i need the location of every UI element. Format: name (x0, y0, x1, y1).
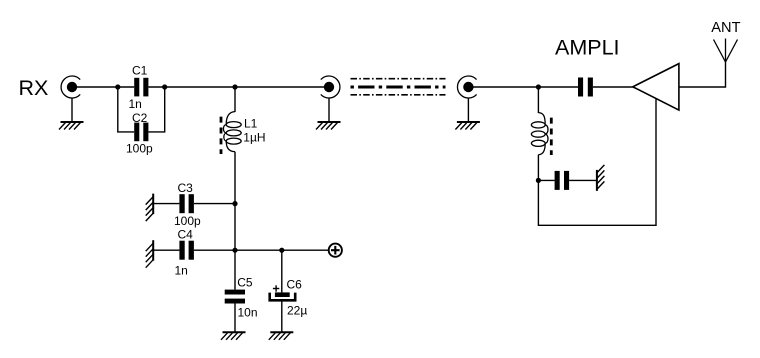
wire J3 to coupling cap (472, 86, 578, 88)
ground at C3 (146, 194, 154, 222)
svg-text:10n: 10n (238, 305, 258, 319)
wire L2 to node H (537, 155, 539, 181)
ground under C6 (269, 332, 294, 340)
inductor L1 (221, 112, 266, 154)
wire node F down to C6 (281, 250, 283, 292)
wire J1 stem (71, 98, 73, 122)
svg-text:1µH: 1µH (243, 130, 265, 144)
wire J1 to C1 (76, 86, 134, 88)
wire gnd to C4 (153, 249, 179, 251)
svg-text:22µ: 22µ (287, 303, 307, 317)
svg-text:RX: RX (19, 76, 49, 100)
svg-text:ANT: ANT (711, 20, 740, 36)
wire node C down to L1 (234, 87, 236, 112)
node B (right of C1) (162, 84, 167, 89)
wire C3 to node D (194, 203, 235, 205)
wire amp output to antenna (679, 62, 726, 87)
connector J1 (RX input) (61, 76, 80, 98)
svg-text:100p: 100p (126, 142, 153, 156)
wire bypass cap to ground (569, 179, 597, 181)
wire L1 to C5 (234, 152, 236, 290)
ground under J2 (316, 122, 341, 130)
node A (left of C1) (115, 84, 120, 89)
capacitor coupling (amp input) (578, 78, 593, 97)
wire J2 stem (328, 98, 330, 122)
capacitor C6 electrolytic (270, 277, 308, 317)
svg-text:C5: C5 (237, 275, 253, 289)
ground at C4 (146, 240, 154, 268)
wire node G down to L2 (537, 87, 539, 113)
node E (232, 248, 237, 253)
wire C5 to ground (234, 304, 236, 333)
wire feedback loop (538, 98, 656, 225)
ground under C5 (221, 332, 246, 340)
connector J3 (457, 76, 476, 98)
capacitor C1 (129, 64, 149, 111)
coax cable bottom braid (351, 94, 446, 96)
svg-text:C3: C3 (178, 181, 194, 195)
op-amp U1 triangle (633, 64, 679, 111)
node C (top of L1) (232, 84, 237, 89)
svg-text:1n: 1n (129, 97, 142, 111)
antenna (714, 39, 738, 63)
svg-text:1n: 1n (175, 264, 188, 278)
coax cable top braid (351, 78, 446, 80)
ground at bypass cap (596, 165, 604, 191)
svg-text:C4: C4 (178, 228, 194, 242)
inductor L2 (531, 113, 551, 155)
wire cap to amp (593, 86, 633, 88)
capacitor C5 (225, 275, 258, 319)
svg-text:C1: C1 (132, 64, 148, 78)
node H (536, 178, 541, 183)
wire J3 stem (467, 98, 469, 122)
capacitor bypass (emitter) (555, 171, 570, 190)
node D (232, 201, 237, 206)
ground under J3 (455, 122, 480, 130)
coax cable center conductor (351, 86, 446, 89)
wire C2 branch right (148, 87, 164, 132)
capacitor C3 (174, 181, 201, 228)
supply terminal + (329, 244, 342, 257)
svg-text:100p: 100p (174, 214, 201, 228)
svg-text:L1: L1 (244, 116, 258, 130)
connector J2 (321, 76, 340, 98)
capacitor C4 (175, 228, 194, 278)
svg-text:C2: C2 (132, 111, 148, 125)
wire node H to bypass cap (538, 179, 554, 181)
wire C2 branch left (118, 87, 134, 132)
node G (536, 84, 541, 89)
wire gnd to C3 (153, 203, 179, 205)
capacitor C2 (126, 111, 153, 156)
ground under J1 (59, 122, 84, 130)
wire C4 to supply (194, 249, 329, 251)
svg-text:C6: C6 (287, 277, 303, 291)
node F (279, 248, 284, 253)
wire C1 to J2 (148, 86, 328, 88)
svg-text:AMPLI: AMPLI (555, 36, 620, 60)
wire C6 to ground (281, 302, 283, 333)
